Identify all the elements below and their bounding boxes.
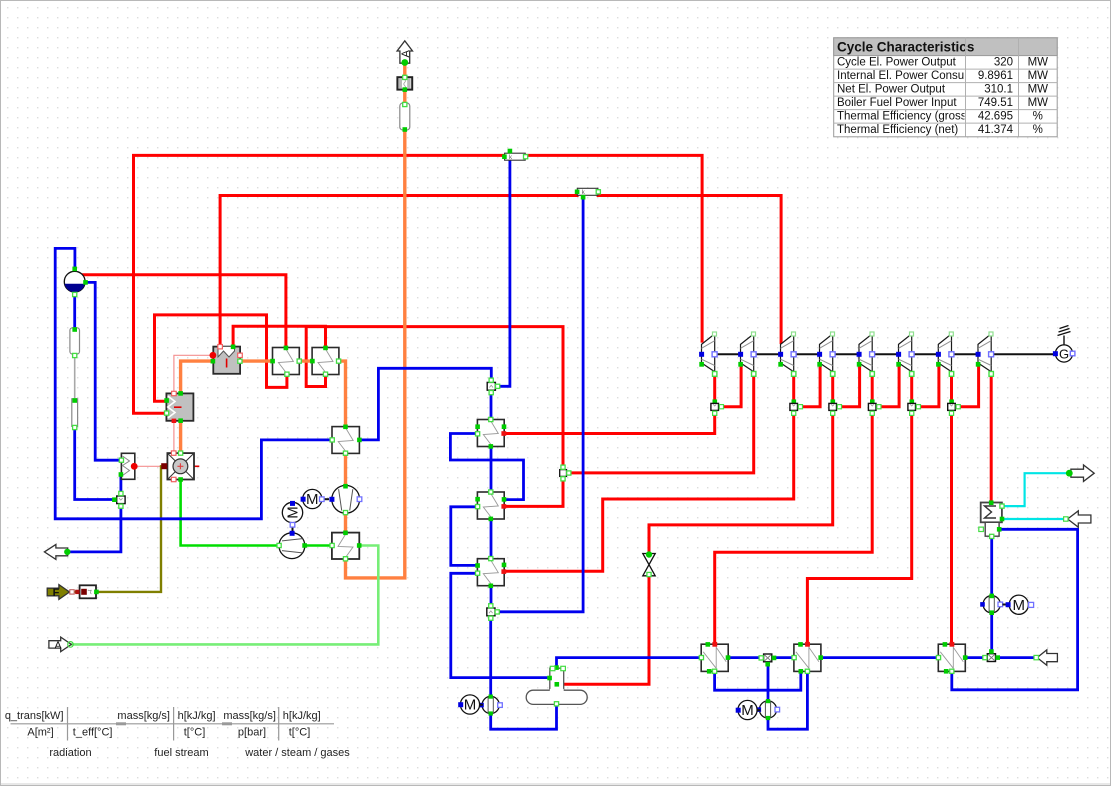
wire HX1 to HX4 steam link	[233, 326, 325, 347]
svg-text:water / steam / gases: water / steam / gases	[244, 747, 350, 759]
downcomer pipe	[70, 327, 80, 357]
wire condenser cooling water outlet (cyan)	[1002, 473, 1068, 506]
reheater HX1 (gray)	[210, 345, 243, 374]
stack duct	[400, 102, 410, 131]
svg-text:fuel stream: fuel stream	[154, 747, 208, 759]
wire drum circulation to HX7	[85, 282, 121, 460]
wire air FD fan to HX6	[304, 544, 332, 547]
drum	[64, 267, 88, 297]
svg-text:A[m²]: A[m²]	[27, 726, 53, 738]
node LP drain splitter	[759, 654, 776, 667]
turbine T7	[936, 332, 954, 376]
node T6 exhaust splitter	[908, 399, 921, 415]
svg-text:42.695: 42.695	[978, 111, 1013, 123]
wire combustion air furnace leg	[181, 480, 277, 546]
motor drain pump	[736, 700, 761, 719]
wire T1 node to T2 inlet	[719, 365, 741, 407]
wire turbine shaft line	[716, 353, 1055, 355]
node T1 exhaust splitter	[711, 399, 724, 415]
motor M1 for ID fan	[301, 489, 329, 508]
wire T5 node to T6 inlet	[876, 365, 899, 407]
wire condenser hotwell to CE pump	[990, 536, 993, 595]
svg-text:Cycle Characteristics: Cycle Characteristics	[837, 40, 974, 55]
wire flue gas HX2 to HX1	[181, 361, 213, 393]
feedwater heater FWH5 (LP1)	[699, 642, 730, 674]
svg-text:p[bar]: p[bar]	[238, 726, 266, 738]
wire air inlet arrow to HX6	[70, 546, 378, 645]
condensate pump	[479, 695, 502, 716]
node T4 exhaust splitter	[829, 399, 842, 415]
svg-text:t[°C]: t[°C]	[184, 726, 206, 738]
wire hotwell tank top return from LP heaters	[557, 658, 702, 668]
wire T4 node to T5 inlet	[837, 365, 860, 407]
economizer HX5	[330, 425, 362, 456]
wire FWH4 to FWH6 condensate	[821, 656, 938, 659]
node T7 exhaust splitter	[948, 399, 961, 415]
wire radiation link HX1-HX2	[174, 355, 213, 393]
svg-text:MW: MW	[1028, 70, 1049, 82]
turbine T3 (IP)	[778, 332, 796, 376]
fuel preheater box	[75, 585, 99, 598]
svg-text:%: %	[1033, 124, 1043, 136]
svg-text:MW: MW	[1028, 97, 1049, 109]
wire shaft T8 to generator	[993, 353, 1055, 355]
wire fuel line to furnace	[96, 466, 167, 592]
reheater HX4	[310, 346, 341, 377]
wire T7 node to T8 inlet	[956, 365, 979, 407]
svg-text:Cycle El. Power Output: Cycle El. Power Output	[837, 57, 957, 69]
wire FWH3 drain to hotwell tank	[451, 573, 546, 677]
wire T1 bleed to FWH1	[505, 411, 715, 434]
svg-text:310.1: 310.1	[984, 84, 1013, 96]
svg-text:A: A	[54, 639, 61, 651]
arrow blowdown out	[44, 544, 70, 559]
svg-text:h[kJ/kg]: h[kJ/kg]	[283, 710, 321, 722]
wire CEP node to makeup arrow	[996, 656, 1036, 659]
wire drain node to drain pump	[767, 663, 770, 700]
splitter box blowdown	[112, 491, 125, 508]
wire HX7 to splitter box	[120, 478, 123, 495]
node makeup mixer	[983, 649, 1000, 661]
motor M2 for FD fan (rotated)	[282, 501, 302, 532]
wire cold reheat node to HX4	[306, 327, 563, 470]
wire HX7 to furnace radiation	[136, 465, 171, 467]
svg-text:Thermal Efficiency (gross): Thermal Efficiency (gross)	[837, 111, 971, 123]
wire spray water to main steam attemperator	[498, 162, 510, 387]
arrow makeup water in	[1034, 650, 1057, 665]
wire condensate node to pump	[489, 618, 492, 696]
drain pump	[757, 699, 780, 720]
feedwater heater FWH1 (HP)	[475, 417, 506, 448]
wire flue gas HX6 to stack	[346, 130, 405, 578]
wire T3 node to T4 inlet	[798, 365, 820, 407]
svg-text:q_trans[kW]: q_trans[kW]	[5, 710, 64, 722]
wire flue gas HX5 to ID fan	[344, 453, 347, 486]
wire gas HX to exhaust arrow A	[403, 62, 406, 77]
turbine T2	[738, 332, 756, 376]
svg-text:h[kJ/kg]: h[kJ/kg]	[178, 710, 216, 722]
wire T3 exhaust to node	[792, 374, 795, 403]
wire FWH6 to CEP node	[965, 656, 987, 659]
heat exchanger HX7 evaporator	[119, 453, 138, 479]
feedwater heater FWH4 (LP2)	[792, 642, 823, 674]
wire reheat node extraction to FWH2	[505, 476, 563, 506]
wire flue gas ID fan to HX6 air preheater	[344, 513, 347, 533]
wire main steam after attemperator to T1	[525, 155, 702, 341]
turbine T1 (HP)	[699, 332, 717, 376]
wire T6 exhaust to node	[910, 374, 913, 403]
wire T4 bleed to condenser valve	[649, 411, 833, 554]
arrow cooling water in	[1064, 511, 1091, 527]
node T5 exhaust splitter	[868, 399, 881, 415]
condensate tank	[526, 665, 587, 706]
svg-text:%: %	[1033, 111, 1043, 123]
svg-text:749.51: 749.51	[978, 97, 1013, 109]
wire hot reheat: HX1 to T3 inlet	[220, 196, 577, 348]
node condensate spray splitter	[487, 604, 500, 621]
superheater HX3	[270, 346, 301, 377]
svg-text:G: G	[1059, 347, 1069, 362]
svg-text:9.8961: 9.8961	[978, 70, 1013, 82]
wire drum saturated steam to HX3	[80, 275, 286, 347]
feedwater heater FWH6 (LP3)	[936, 642, 967, 674]
wire flue gas HX4 to HX5 economizer	[339, 361, 346, 427]
wire T7 exhaust to node	[950, 374, 953, 403]
wire downcomer gray link	[74, 354, 76, 398]
ID fan	[329, 484, 361, 515]
motor CE pump	[1003, 595, 1034, 614]
svg-text:41.374: 41.374	[978, 124, 1014, 136]
wire riser to blowdown splitter	[75, 427, 115, 500]
wire flue gas HX1 to HX3	[240, 359, 273, 362]
node feedwater to spray splitter	[487, 378, 500, 395]
wire T1 exhaust to node	[713, 374, 716, 403]
svg-text:t[°C]: t[°C]	[289, 726, 311, 738]
wire drain pump discharge to FWH4	[768, 672, 807, 729]
wire drum bottom to downcomer	[73, 292, 76, 328]
svg-text:MW: MW	[1028, 57, 1049, 69]
svg-text:mass[kg/s]: mass[kg/s]	[117, 710, 170, 722]
wire T3 bleed to FWH3	[505, 411, 794, 572]
node T3 exhaust splitter	[790, 399, 803, 415]
wire FWH2 to FWH3 feed	[490, 520, 493, 558]
svg-text:Boiler Fuel Power Input: Boiler Fuel Power Input	[837, 97, 957, 109]
wire T6 node to T7 inlet	[916, 365, 939, 407]
stack exhaust arrow A	[397, 41, 412, 66]
svg-text:M: M	[285, 506, 302, 519]
wire T5 exhaust to node	[871, 374, 874, 403]
wire T8 exhaust to condenser	[990, 374, 993, 503]
riser tube	[72, 398, 78, 429]
furnace / combustion chamber	[161, 451, 194, 482]
wire drain node to FWH4	[773, 656, 794, 659]
arrow air in A	[49, 637, 73, 652]
superheater HX2 (gray)	[164, 391, 193, 423]
turbine T6	[896, 332, 914, 376]
valve to condenser	[643, 551, 655, 576]
FD fan	[277, 531, 307, 559]
wire T6 bleed to FWH4	[807, 411, 911, 644]
wire radiation link HX2-furnace	[173, 421, 175, 453]
attemperator node reheat	[575, 188, 601, 199]
svg-text:Thermal Efficiency (net): Thermal Efficiency (net)	[837, 124, 958, 136]
wire main steam: HX2 outlet to T1 inlet	[134, 155, 505, 413]
wire FWH3 to condensate node	[490, 587, 493, 606]
svg-text:Net El. Power Output: Net El. Power Output	[837, 84, 946, 96]
wire feedwater riser to drum top	[55, 248, 332, 518]
svg-text:mass[kg/s]: mass[kg/s]	[223, 710, 276, 722]
wire cold reheat: T2 exhaust to reheat node	[567, 374, 754, 473]
wire spray water to reheat attemperator	[497, 197, 583, 612]
wire flue gas HX3 to HX4	[299, 359, 312, 362]
stack gas heat exchanger	[397, 75, 412, 92]
wire FWH1 to FWH2 feed	[490, 448, 493, 491]
feedwater heater FWH2	[475, 490, 506, 521]
generator G	[1053, 326, 1075, 363]
wire CE pump to node	[990, 613, 993, 652]
attemperator node main steam	[502, 149, 528, 161]
motor condensate pump	[458, 695, 483, 714]
wire condenser recirculation loop	[952, 529, 1078, 690]
svg-text:MW: MW	[1028, 84, 1049, 96]
arrow cooling water out	[1066, 465, 1094, 481]
wire FWH5 to drain node	[728, 656, 763, 659]
wire condensate pump suction from tank	[491, 706, 557, 730]
wire FWH4 drain to FWH5	[715, 672, 801, 690]
wire flue gas furnace to HX2	[179, 421, 182, 453]
node reheat extraction splitter	[560, 465, 571, 481]
svg-text:radiation: radiation	[49, 747, 91, 759]
svg-text:320: 320	[994, 57, 1013, 69]
feedwater heater FWH3	[475, 557, 506, 589]
svg-text:t_eff[°C]: t_eff[°C]	[73, 726, 113, 738]
wire economizer HX5 to FW node	[360, 368, 492, 440]
air preheater HX6	[330, 531, 362, 561]
wire FWH2 drain cascade to FWH3	[451, 507, 476, 566]
turbine T4	[817, 332, 835, 376]
wire T7 bleed to FWH6	[950, 411, 953, 644]
wire stack duct to gas HX	[403, 89, 406, 103]
wire T5 bleed to FWH5	[715, 411, 873, 644]
wire splitter to blowdown arrow	[69, 506, 121, 552]
wire FW node to FWH1	[490, 392, 493, 418]
wire HX3 to HX2 steam link	[155, 315, 287, 401]
condenser hotwell box	[979, 522, 1002, 538]
wire fuel arrow to fuel preheater	[69, 591, 81, 593]
svg-text:Internal El. Power Consumpt: Internal El. Power Consumpt	[837, 70, 984, 82]
svg-text:A: A	[400, 49, 412, 57]
wire FWH1 drain cascade to FWH2	[450, 434, 523, 500]
CE pump	[980, 594, 1002, 615]
wire furnace heat tick	[187, 465, 199, 467]
condenser	[981, 500, 1005, 522]
turbine T5	[857, 332, 875, 376]
turbine T8 (LP)	[976, 332, 994, 376]
arrow fuel in F	[47, 585, 74, 600]
wire T4 exhaust to node	[831, 374, 834, 403]
wire condenser cooling water inlet (cyan)	[1002, 518, 1065, 520]
wire valve to hotwell tank	[560, 576, 649, 685]
wire hot reheat after attemperator to T3	[598, 196, 781, 343]
svg-text:F: F	[53, 587, 60, 599]
